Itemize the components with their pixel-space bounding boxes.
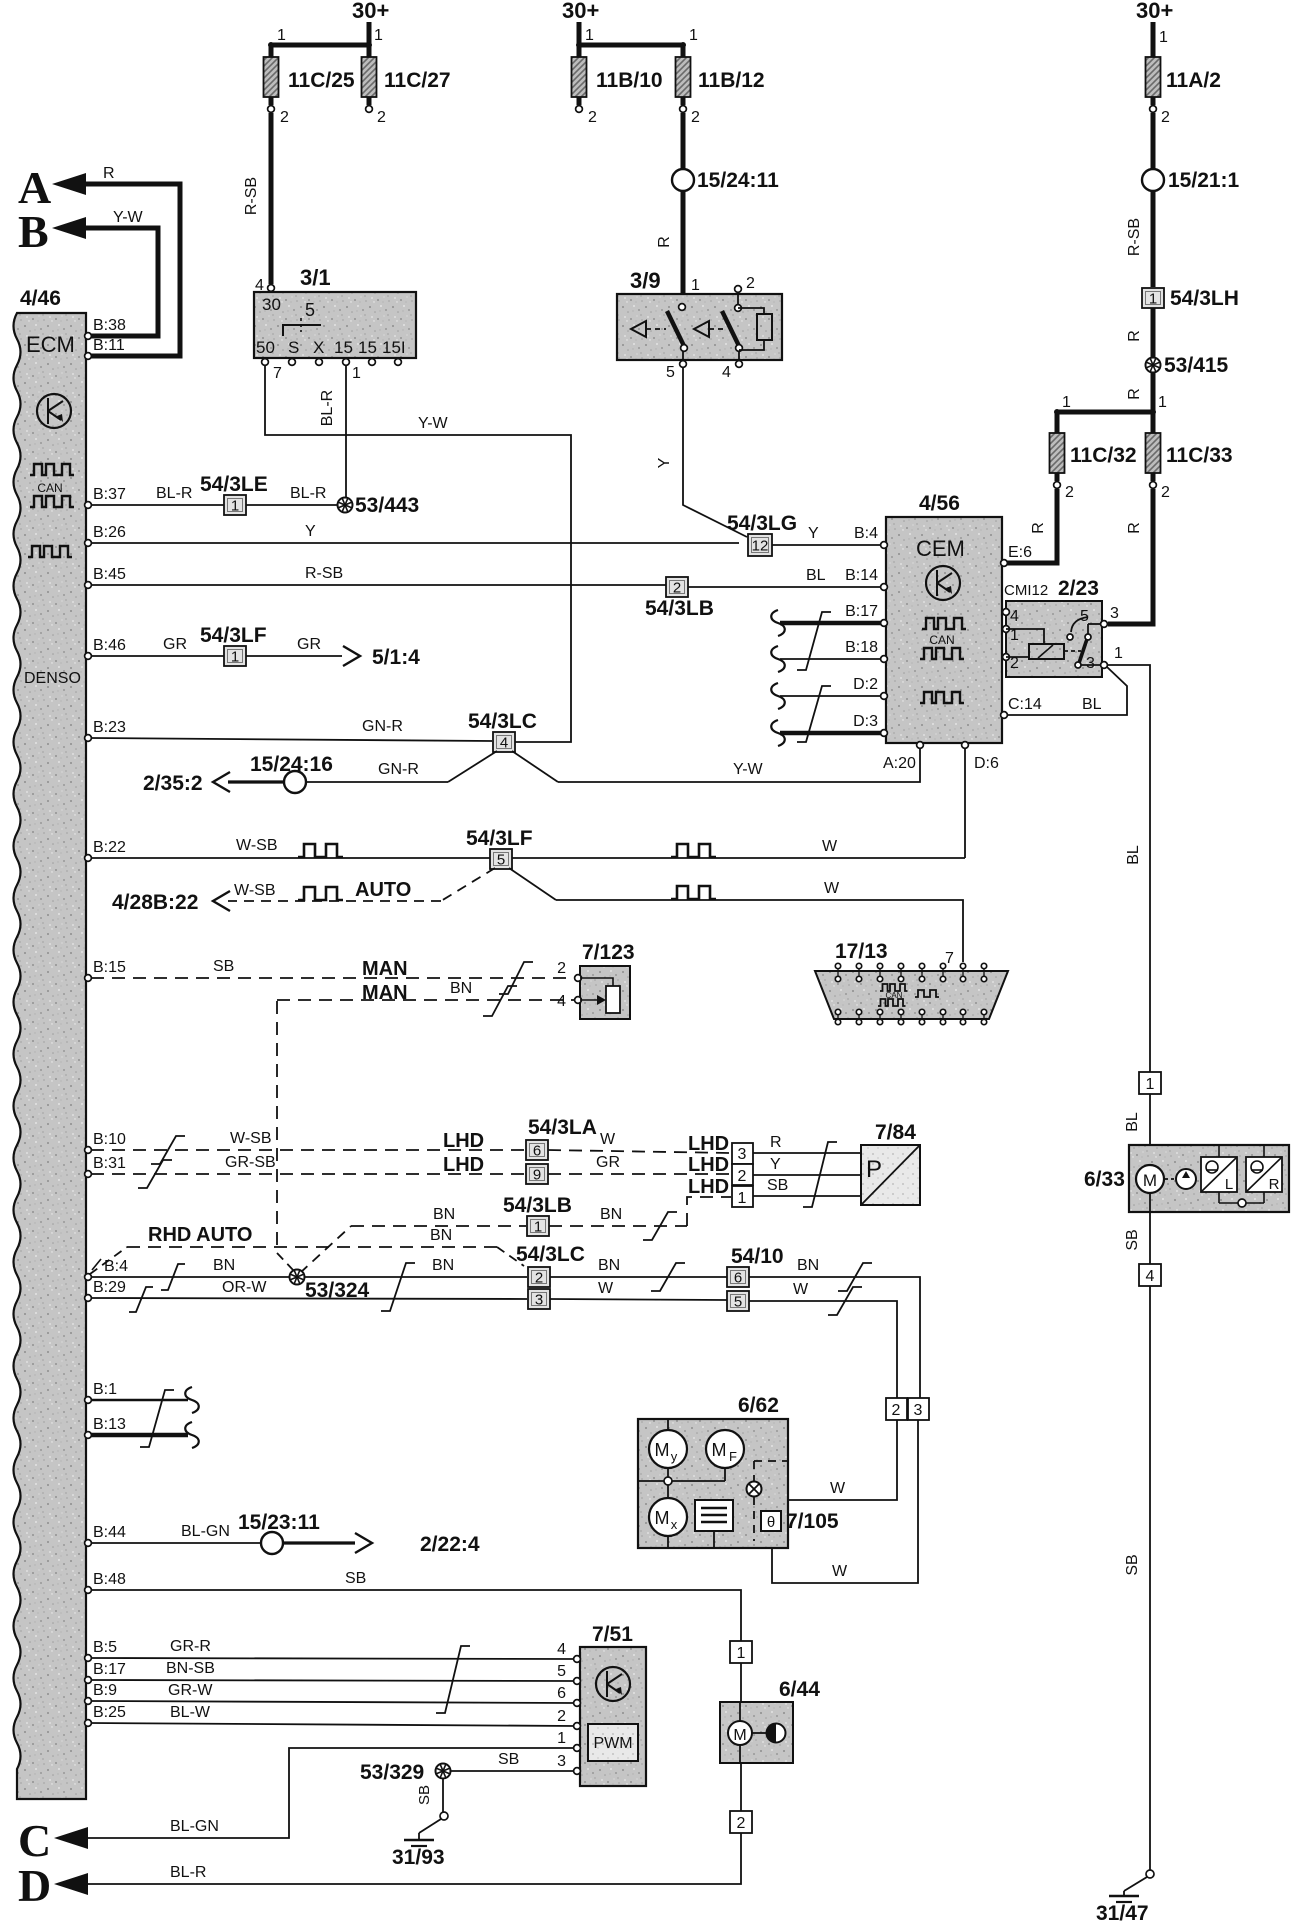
svg-text:MAN: MAN: [362, 982, 408, 1004]
svg-text:W-SB: W-SB: [230, 1130, 271, 1147]
svg-text:B:44: B:44: [93, 1524, 126, 1541]
wire GR-R from ECM B:5 to 7/51 pin 4: [91, 1638, 575, 1659]
wire BL from relay pin 1 down to 6/33: [1107, 665, 1150, 1072]
svg-text:15/24:16: 15/24:16: [250, 753, 333, 776]
wire W from 54/3LC(3) to 54/10(5): [550, 1280, 727, 1300]
svg-text:B:26: B:26: [93, 524, 126, 541]
svg-text:B:31: B:31: [93, 1155, 126, 1172]
svg-text:6/44: 6/44: [779, 1678, 820, 1701]
svg-text:D:6: D:6: [974, 755, 999, 772]
svg-text:A:20: A:20: [883, 755, 916, 772]
svg-text:12: 12: [752, 538, 769, 555]
wire BL-R from 3/1 pin 15 to splice 53/443: [319, 366, 346, 498]
7/123 pin 2: [557, 960, 581, 981]
wire Y from 54/3LG to CEM B:4: [772, 525, 881, 545]
wire from connector 1 to horn 6/44: [740, 1663, 742, 1702]
svg-text:54/3LH: 54/3LH: [1170, 287, 1239, 310]
svg-text:B:18: B:18: [845, 639, 878, 656]
climate unit 6/62: [638, 1394, 788, 1548]
connector 15/21:1: [1142, 169, 1240, 192]
svg-text:SB: SB: [416, 1785, 433, 1805]
dashed wire W-SB from ECM B:10: [91, 1130, 526, 1164]
svg-text:3: 3: [914, 1402, 923, 1419]
pin 1 of 3/9: [679, 277, 700, 310]
svg-text:2: 2: [746, 275, 755, 292]
svg-text:31/47: 31/47: [1096, 1902, 1149, 1924]
svg-text:1: 1: [738, 1190, 747, 1207]
wire GN-R from 54/3LC to connector 15/24:16: [306, 751, 497, 782]
svg-text:DENSO: DENSO: [24, 670, 81, 687]
wire SB from splice 53/329 to ground 31/93: [416, 1778, 448, 1840]
svg-text:54/10: 54/10: [731, 1245, 784, 1268]
svg-text:CAN: CAN: [929, 633, 954, 647]
dashed wire BN from 54/3LB(1) to LHD connector 1: [549, 1176, 731, 1240]
svg-text:Y: Y: [808, 525, 819, 542]
wire GR from ECM B:46 to connector 54/3LF: [91, 636, 224, 656]
svg-text:RHD AUTO: RHD AUTO: [148, 1224, 252, 1246]
svg-text:Y: Y: [770, 1156, 781, 1173]
wire stub B:1 (twisted pair): [91, 1387, 199, 1413]
wire bus to fuses 11C/25 and 11C/27: [268, 27, 383, 57]
svg-text:S: S: [288, 338, 299, 357]
svg-text:2: 2: [1065, 484, 1074, 501]
svg-text:BL-R: BL-R: [170, 1864, 206, 1881]
wire BL-GN from node C to 7/51 pin 1: [88, 1730, 575, 1838]
svg-text:D: D: [18, 1860, 51, 1911]
splice 53/443: [338, 494, 420, 517]
ECM pin B:1: [85, 1381, 118, 1403]
svg-text:Y: Y: [305, 523, 316, 540]
svg-text:5: 5: [557, 1663, 566, 1680]
svg-text:BN: BN: [432, 1257, 454, 1274]
ECM pin B:13: [85, 1416, 126, 1438]
7/51 pin circles: [574, 1656, 581, 1775]
svg-text:54/3LF: 54/3LF: [466, 827, 533, 850]
ECM pin B:44: [85, 1524, 126, 1546]
wire W from 54/3LF to CEM D:6: [512, 749, 965, 858]
svg-text:W: W: [830, 1480, 846, 1497]
fuse 11C/25: [264, 57, 355, 97]
svg-text:B:29: B:29: [93, 1279, 126, 1296]
svg-text:B:1: B:1: [93, 1381, 117, 1398]
ECM pin B:10: [85, 1131, 126, 1153]
dashed wire W-SB AUTO to node 4/28B:22: [112, 868, 495, 914]
svg-text:4: 4: [1146, 1268, 1155, 1285]
svg-text:LHD: LHD: [443, 1154, 484, 1176]
wire OR-W from ECM B:29 to connector 54/3LC(3): [91, 1279, 527, 1312]
svg-text:M: M: [655, 1440, 670, 1460]
svg-text:B:46: B:46: [93, 637, 126, 654]
svg-text:4: 4: [557, 993, 566, 1010]
svg-text:R-SB: R-SB: [1126, 218, 1143, 256]
svg-text:11C/32: 11C/32: [1070, 444, 1137, 467]
wire BL-R from ECM B:37 to splice 53/443: [91, 485, 337, 505]
connector 54/3LG pin 12: [727, 512, 797, 556]
inline connector pin 3: [908, 1398, 929, 1420]
svg-text:7/105: 7/105: [786, 1510, 839, 1533]
svg-text:D:3: D:3: [853, 713, 878, 730]
fan control module 7/51: [580, 1623, 646, 1786]
wire R from 53/415 to fuse bus: [1126, 372, 1153, 412]
ECM pin B:15: [85, 959, 126, 981]
svg-text:θ: θ: [767, 1514, 775, 1531]
svg-text:B:17: B:17: [845, 603, 878, 620]
svg-text:2/23: 2/23: [1058, 577, 1099, 600]
svg-text:3: 3: [557, 1753, 566, 1770]
svg-text:7: 7: [273, 365, 282, 382]
ground 31/47: [1096, 1896, 1149, 1924]
ECM pin B:9: [85, 1682, 118, 1704]
svg-text:1: 1: [585, 27, 594, 44]
connector 15/24:16: [250, 753, 333, 793]
wire R from ECM B:11 to node A: [86, 165, 180, 356]
svg-text:31/93: 31/93: [392, 1846, 445, 1869]
ECM pin B:23: [85, 719, 126, 741]
svg-text:11B/12: 11B/12: [698, 69, 765, 92]
CEM pin C:14: [1001, 696, 1042, 718]
wire Y-W from 54/3LC to CEM A:20: [512, 749, 920, 782]
svg-text:R-SB: R-SB: [243, 177, 260, 215]
wire Y from ECM B:26 to connector 54/3LG: [91, 523, 739, 543]
inline connector pin 1 (right): [1139, 1072, 1161, 1094]
wire BN from 54/3LC(2) to 54/10(6): [550, 1257, 727, 1291]
lamp in 6/62: [747, 1461, 789, 1541]
ECM pin B:48: [85, 1571, 126, 1593]
svg-text:Y: Y: [656, 457, 673, 468]
svg-text:B:37: B:37: [93, 486, 126, 503]
relay 2/23 pin 3: [1101, 605, 1119, 627]
svg-text:L: L: [1225, 1176, 1233, 1193]
CEM pin D:3: [853, 713, 887, 736]
fuse 11B/12: [676, 57, 765, 97]
relay 2/23 pin 4: [1003, 609, 1010, 616]
svg-text:BL-R: BL-R: [156, 485, 192, 502]
data link connector 17/13: [815, 940, 1008, 1019]
svg-text:1: 1: [737, 1645, 746, 1662]
svg-text:B:10: B:10: [93, 1131, 126, 1148]
svg-text:11C/33: 11C/33: [1166, 444, 1233, 467]
svg-text:R: R: [1269, 1176, 1280, 1193]
connector 15/23:11: [238, 1511, 320, 1554]
node A (arrow to other page): [18, 162, 86, 213]
pin 2 of fuse 11C/33: [1150, 473, 1170, 501]
mechanical-link arrows in 3/9: [631, 321, 727, 337]
ECM pin B:22: [85, 839, 126, 861]
svg-text:4: 4: [255, 277, 264, 294]
resistor element in 3/9: [738, 308, 772, 350]
fuse 11C/27: [362, 57, 451, 97]
svg-text:R: R: [770, 1134, 782, 1151]
relay 2/23 pin 1 output: [1101, 645, 1123, 668]
svg-text:W: W: [793, 1281, 809, 1298]
svg-text:BN: BN: [797, 1257, 819, 1274]
7/123 pin 4: [557, 993, 581, 1010]
svg-text:54/3LE: 54/3LE: [200, 473, 268, 496]
svg-text:F: F: [729, 1449, 737, 1464]
svg-text:4/46: 4/46: [20, 287, 61, 310]
wire R from fuse 11C/32 to CEM pin E:6: [1004, 489, 1057, 563]
svg-text:BL-W: BL-W: [170, 1704, 211, 1721]
ECM pin B:38: [85, 317, 126, 339]
connector 54/3LF pin 5: [466, 827, 533, 869]
svg-text:B:11: B:11: [93, 337, 125, 354]
svg-text:X: X: [313, 338, 324, 357]
fuse 11B/10: [572, 57, 663, 97]
LHD connector pin 1: [732, 1186, 753, 1207]
svg-text:3: 3: [1110, 605, 1119, 622]
wire SB from 6/33 to connector 4: [1124, 1193, 1150, 1264]
svg-text:1: 1: [689, 27, 698, 44]
svg-text:7: 7: [945, 950, 954, 967]
wire bus to fuses 11B/10 and 11B/12: [576, 27, 698, 57]
svg-text:P: P: [866, 1156, 882, 1183]
svg-text:E:6: E:6: [1008, 544, 1032, 561]
svg-text:BL-R: BL-R: [319, 390, 336, 426]
connector 54/3LF pin 1: [200, 624, 267, 666]
connector 54/3LE pin 1: [200, 473, 268, 515]
ECM pin B:11: [85, 337, 125, 359]
svg-text:2: 2: [377, 109, 386, 126]
svg-text:B:5: B:5: [93, 1639, 117, 1656]
ECM pin B:45: [85, 566, 126, 588]
svg-text:y: y: [671, 1449, 678, 1464]
svg-text:6: 6: [734, 1270, 742, 1287]
svg-text:2: 2: [691, 109, 700, 126]
wire bus to fuses 11C/32 and 11C/33: [1054, 394, 1167, 433]
ECM pin B:17: [85, 1661, 126, 1683]
svg-text:9: 9: [533, 1167, 541, 1184]
wire GR to node 5/1:4: [246, 636, 420, 669]
relay 2/23 pin 1 (coil): [1003, 626, 1044, 644]
wire SB from ECM B:48 to horn relay feed: [91, 1570, 741, 1641]
pin 2 of fuse 11C/27: [366, 97, 386, 126]
CEM pin B:4: [854, 525, 887, 548]
svg-text:2: 2: [1161, 484, 1170, 501]
svg-text:BL: BL: [1125, 845, 1142, 865]
node C (arrow to other page): [18, 1815, 88, 1866]
wire SB from connector 4 to ground 31/47: [1124, 1286, 1154, 1896]
svg-text:53/329: 53/329: [360, 1761, 424, 1784]
wire W-SB from ECM B:22 to connector 54/3LF(5): [91, 837, 490, 858]
CEM pin D:2: [853, 676, 887, 699]
horn 6/44: [720, 1678, 820, 1763]
svg-text:2: 2: [737, 1815, 746, 1832]
svg-text:2: 2: [738, 1168, 747, 1185]
svg-text:1: 1: [557, 1730, 566, 1747]
resistor element in 7/123: [580, 978, 620, 1013]
connector 54/3LC pin 2: [516, 1243, 585, 1287]
pin 4 (30) of 3/1: [255, 277, 274, 294]
switch contact arm (right) in 3/9: [722, 311, 742, 361]
splice 53/324: [290, 1270, 370, 1303]
svg-text:3/1: 3/1: [300, 265, 331, 290]
svg-text:LHD: LHD: [688, 1154, 729, 1176]
washer unit 6/33: [1084, 1145, 1289, 1212]
svg-text:W: W: [600, 1131, 616, 1148]
splice 53/415: [1146, 354, 1229, 377]
svg-text:LHD: LHD: [443, 1130, 484, 1152]
wire stub B:13 (twisted pair): [91, 1422, 199, 1448]
wire R to instrument 7/84: [753, 1134, 861, 1153]
wire SB to instrument 7/84: [753, 1177, 861, 1196]
pin 2 of 3/9: [735, 275, 755, 311]
svg-text:W-SB: W-SB: [234, 882, 275, 899]
wire BN from 54/10(6) down to connector 3: [749, 1257, 920, 1398]
svg-text:1: 1: [231, 498, 239, 515]
svg-text:M: M: [733, 1727, 746, 1744]
LHD connector pin 3: [732, 1143, 753, 1164]
svg-text:R-SB: R-SB: [305, 565, 343, 582]
ignition switch 3/1: [254, 265, 416, 358]
wire from fuse 11A/2 to connector 15/21:1: [1151, 113, 1156, 169]
svg-text:1: 1: [1159, 29, 1168, 46]
svg-text:BL-GN: BL-GN: [181, 1523, 230, 1540]
slash pair mark B:1/B:13: [140, 1390, 174, 1447]
svg-text:1: 1: [374, 27, 383, 44]
wire BL-W from ECM B:25 to 7/51 pin 2: [91, 1704, 575, 1726]
svg-text:C: C: [18, 1815, 51, 1866]
ECM control module 4/46: [14, 287, 87, 1799]
svg-text:BN: BN: [450, 980, 472, 997]
wire R from 15/24:11 to switch 3/9 pin 1: [656, 191, 683, 302]
dashed wire W from 54/3LA(6) to LHD connector 3: [548, 1131, 731, 1155]
svg-text:54/3LA: 54/3LA: [528, 1116, 597, 1139]
wire R-SB from 15/21:1 to connector 54/3LH: [1126, 191, 1153, 287]
svg-text:W-SB: W-SB: [236, 837, 277, 854]
wire W from 54/3LF to data link connector 17/13 pin 7: [509, 868, 963, 962]
svg-text:1: 1: [534, 1219, 542, 1236]
svg-text:B:9: B:9: [93, 1682, 117, 1699]
motor Mx in 6/62: [649, 1485, 687, 1548]
ground 31/93: [392, 1840, 445, 1869]
svg-text:2: 2: [673, 580, 681, 597]
fuse 11C/32: [1050, 433, 1137, 473]
inline connector pin 1: [730, 1641, 752, 1663]
ECM pin B:31: [85, 1155, 126, 1177]
CEM pin D:6: [962, 742, 999, 772]
wire BL-GN from ECM B:44 to connector 15/23:11: [91, 1523, 261, 1543]
svg-text:5: 5: [497, 852, 505, 869]
svg-text:GR: GR: [163, 636, 187, 653]
svg-text:5: 5: [666, 364, 675, 381]
svg-text:Y-W: Y-W: [733, 761, 764, 778]
wire R-SB from ECM B:45 to connector 54/3LB: [91, 565, 666, 585]
svg-text:53/415: 53/415: [1164, 354, 1229, 377]
svg-text:BN: BN: [433, 1206, 455, 1223]
connector 54/3LH pin 1: [1142, 287, 1239, 310]
connector 54/3LA pin 9: [526, 1164, 548, 1184]
junction node in 6/62: [638, 1477, 725, 1485]
svg-text:11A/2: 11A/2: [1166, 69, 1221, 92]
wire stub D:2 (twisted pair): [771, 683, 881, 709]
wire BL-R from connector 2 to node D: [88, 1833, 741, 1884]
pin 5 of 3/9: [666, 361, 686, 381]
connector 54/3LB pin 1: [503, 1194, 572, 1236]
svg-text:PWM: PWM: [593, 1735, 632, 1752]
svg-text:1: 1: [231, 649, 239, 666]
svg-text:BL-R: BL-R: [290, 485, 326, 502]
svg-text:R: R: [103, 165, 115, 182]
svg-text:3: 3: [535, 1292, 543, 1309]
wire R from 54/3LH to splice 53/415: [1126, 308, 1153, 358]
wire BL from connector 1 to washer unit 6/33: [1124, 1094, 1150, 1165]
svg-text:5: 5: [734, 1294, 742, 1311]
ECM pin B:25: [85, 1704, 126, 1726]
wire R-SB from fuse 11C/25 to ignition switch 3/1 pin 4: [243, 113, 271, 284]
svg-text:30+: 30+: [352, 0, 389, 23]
CEM pin B:14: [845, 567, 887, 590]
svg-text:53/443: 53/443: [355, 494, 419, 517]
svg-text:SB: SB: [767, 1177, 788, 1194]
svg-text:11C/25: 11C/25: [288, 69, 355, 92]
switch contact arm (left) in 3/9: [667, 311, 687, 361]
svg-text:2: 2: [535, 1270, 543, 1287]
fuse 11A/2: [1146, 57, 1221, 97]
svg-text:B:25: B:25: [93, 1704, 126, 1721]
pin 2 of fuse 11C/25: [268, 97, 289, 126]
wire W from connector 3 to heater element 7/105: [772, 1420, 918, 1583]
svg-text:BL: BL: [806, 567, 826, 584]
svg-text:30+: 30+: [1136, 0, 1173, 23]
slash mark on 7/84 wires: [803, 1142, 837, 1207]
svg-text:50: 50: [256, 338, 275, 357]
relay module 7/123: [580, 941, 635, 1019]
pin 4 of 3/9: [722, 361, 742, 381]
power feed 30+ (left): [352, 0, 389, 45]
dashed wire GR from 54/3LA(9) to LHD connector 2: [548, 1154, 731, 1176]
relay 2/23 (CMI12): [1004, 577, 1102, 677]
svg-text:BN: BN: [213, 1257, 235, 1274]
svg-text:11B/10: 11B/10: [596, 69, 663, 92]
svg-text:B:13: B:13: [93, 1416, 126, 1433]
svg-text:2: 2: [280, 109, 289, 126]
svg-text:CMI12: CMI12: [1004, 582, 1048, 599]
svg-text:M: M: [655, 1508, 670, 1528]
wire BN-SB from ECM B:17 to 7/51 pin 5: [91, 1660, 575, 1681]
bottom pins of 3/1: [262, 359, 402, 382]
svg-text:BL: BL: [1124, 1112, 1141, 1132]
svg-text:W: W: [822, 838, 838, 855]
svg-text:GR-R: GR-R: [170, 1638, 211, 1655]
svg-text:Y-W: Y-W: [418, 415, 449, 432]
lamp return node in 6/33: [1219, 1199, 1264, 1207]
wire GN-R from ECM B:23 to connector 54/3LC: [91, 718, 492, 741]
fuse 11C/33: [1146, 433, 1233, 473]
ECM pin B:5: [85, 1639, 118, 1661]
svg-text:1: 1: [1158, 394, 1167, 411]
svg-text:2: 2: [557, 960, 566, 977]
pin 2 of fuse 11B/10: [576, 97, 597, 126]
svg-text:2/22:4: 2/22:4: [420, 1533, 480, 1556]
dashed wire SB MAN from ECM B:15 to 7/123 pin 2: [91, 958, 576, 994]
ECM pin B:4: [85, 1258, 129, 1280]
svg-text:54/3LF: 54/3LF: [200, 624, 267, 647]
svg-text:M: M: [712, 1440, 727, 1460]
svg-text:BN: BN: [600, 1206, 622, 1223]
pin 2 of fuse 11C/32: [1054, 473, 1074, 501]
svg-text:4: 4: [557, 1641, 566, 1658]
svg-text:GR: GR: [596, 1154, 620, 1171]
wire R from fuse 11C/33 to relay 2/23 pin 3: [1108, 489, 1153, 624]
inline connector pin 2: [886, 1398, 907, 1420]
svg-text:15/24:11: 15/24:11: [697, 169, 779, 192]
dashed wire MAN BN to 7/123 pin 4: [277, 980, 576, 1271]
splice 53/329: [360, 1761, 451, 1784]
svg-text:54/3LG: 54/3LG: [727, 512, 797, 535]
inline connector pin 2: [730, 1811, 752, 1833]
CEM pin E:6: [1001, 544, 1033, 566]
svg-text:3/9: 3/9: [630, 268, 661, 293]
